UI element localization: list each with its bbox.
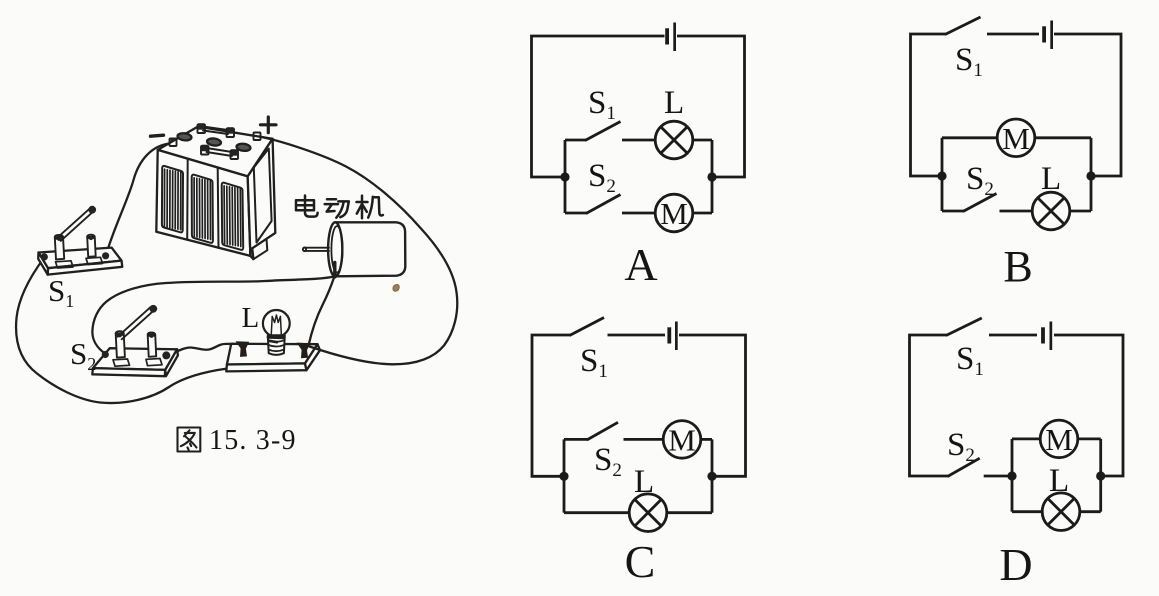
wire A left riser <box>564 140 567 213</box>
switch S1 base <box>38 248 122 275</box>
node right (circuit B) <box>1086 171 1095 180</box>
switch S1 binding post right <box>102 252 109 259</box>
svg-text:L: L <box>664 85 684 121</box>
svg-text:15. 3-9: 15. 3-9 <box>209 425 297 456</box>
svg-text:S1: S1 <box>580 343 608 382</box>
wire D left dropper <box>1011 476 1014 512</box>
wire A lamp to right riser <box>693 139 712 142</box>
svg-text:S2: S2 <box>594 442 622 481</box>
switch S2 (circuit C) <box>564 438 588 441</box>
lamp L (circuit D) <box>1042 493 1080 531</box>
wire B right dropper <box>1090 176 1093 211</box>
wire C top-left <box>532 335 571 476</box>
lamp base <box>226 344 320 372</box>
wire B branch M right <box>1035 136 1091 139</box>
switch S1 (circuit D) <box>946 318 982 336</box>
battery cell hatch panel 1 <box>162 166 183 232</box>
node right (circuit D) <box>1096 471 1105 480</box>
switch S2 binding post left <box>102 351 109 358</box>
wire battery-plus big right arc to lamp right clamp <box>259 137 457 365</box>
svg-text:B: B <box>1003 242 1032 291</box>
switch S2 (circuit A) <box>565 212 587 215</box>
motor M (circuit A) <box>655 194 693 232</box>
wire C branch M to motor <box>624 438 664 441</box>
svg-text:M: M <box>660 196 688 231</box>
svg-text:L: L <box>634 464 654 500</box>
lamp L (circuit A) <box>655 121 693 159</box>
wire A top-right <box>677 36 745 177</box>
lamp screw base <box>268 335 285 355</box>
wire B right riser <box>1090 138 1093 176</box>
svg-text:C: C <box>625 536 656 587</box>
lamp filament <box>271 315 281 334</box>
node left (circuit D) <box>1007 471 1016 480</box>
switch S1 (circuit B) <box>945 17 981 35</box>
motor body <box>328 222 405 278</box>
node left (circuit B) <box>937 171 946 180</box>
wire D branch M right <box>1078 437 1101 440</box>
wire C top-right <box>679 335 746 476</box>
svg-text:M: M <box>1045 422 1073 457</box>
svg-text:S1: S1 <box>588 85 616 124</box>
caption 图 15.3-9 <box>178 428 201 452</box>
battery B-D <box>1041 322 1052 351</box>
svg-text:L: L <box>1041 161 1061 197</box>
node left (circuit C) <box>559 472 568 481</box>
switch S1 binding post left <box>41 253 48 260</box>
svg-text:S1: S1 <box>48 273 74 311</box>
battery minus terminal post <box>170 138 177 146</box>
电 <box>305 196 318 217</box>
switch S1 foot marks <box>56 257 103 268</box>
lamp bulb globe <box>263 310 290 337</box>
svg-text:D: D <box>999 539 1032 590</box>
label 电动机 (motor) drawn strokes <box>296 196 383 219</box>
svg-text:L: L <box>242 302 260 334</box>
wire C right dropper <box>711 476 714 512</box>
lamp left clamp <box>236 341 250 357</box>
switch S2 foot marks <box>113 359 162 367</box>
wire A right riser <box>711 140 714 213</box>
label plus terminal <box>261 117 277 133</box>
switch S1 left post with hinge <box>55 235 64 260</box>
battery filler caps <box>177 132 251 151</box>
图 glyph <box>178 428 201 452</box>
wire D switch to left node <box>984 475 1012 478</box>
wire A motor to right riser <box>693 212 712 215</box>
wire D top-left <box>910 335 949 476</box>
label minus terminal <box>151 135 164 136</box>
battery cell hatch panel 2 <box>192 175 213 243</box>
battery cell hatch panel 3 <box>222 183 244 250</box>
svg-text:M: M <box>1002 121 1030 156</box>
svg-text:M: M <box>668 422 696 457</box>
lamp L (circuit C) <box>629 494 667 532</box>
switch S1 lever <box>57 206 97 241</box>
wire A branch1 to lamp <box>622 139 655 142</box>
wire B top-left <box>911 34 947 176</box>
battery pack <box>156 127 275 260</box>
battery B-C <box>667 322 677 351</box>
battery plus terminal post <box>254 133 261 141</box>
wire D left riser <box>1011 439 1014 476</box>
node left (circuit A) <box>560 172 569 181</box>
svg-text:S2: S2 <box>966 161 994 200</box>
svg-text:S2: S2 <box>947 427 975 466</box>
机 <box>357 196 368 219</box>
switch S2 (circuit B) <box>942 210 964 213</box>
wire B lamp right <box>1070 210 1091 213</box>
wire D right dropper <box>1099 476 1102 512</box>
battery strap front (cell2-cell3) <box>201 145 238 159</box>
wire S2 right post to lamp left clamp <box>167 344 239 356</box>
switch S1 (circuit C) <box>570 318 605 336</box>
wire D branch M left <box>1012 437 1040 440</box>
switch S2 (circuit D) <box>948 458 980 476</box>
svg-text:S2: S2 <box>588 158 616 197</box>
wire D top-right <box>1054 335 1123 476</box>
wire C left dropper <box>563 476 566 512</box>
battery strap back (cell1-cell2) <box>198 123 235 137</box>
wire B top-right <box>1054 34 1121 176</box>
wire A branch2 to motor <box>622 212 655 215</box>
wire C right riser <box>711 439 714 476</box>
wire D branch L left <box>1012 510 1042 513</box>
wire C lamp right <box>667 511 712 514</box>
switch S2 binding post right <box>162 351 170 359</box>
wire S1 left post bottom loop to lamp base <box>16 258 237 404</box>
wire motor bottom to lamp right clamp <box>309 278 335 346</box>
wire D right riser <box>1099 439 1102 476</box>
motor M (circuit C) <box>663 421 701 459</box>
wire C left riser <box>563 439 566 476</box>
wire B branch L to lamp <box>1000 210 1033 213</box>
svg-text:S1: S1 <box>956 341 984 380</box>
switch S2 base <box>92 348 178 376</box>
svg-text:S2: S2 <box>70 336 96 374</box>
lamp L (circuit B) <box>1032 192 1070 230</box>
switch S2 right post <box>148 332 157 356</box>
battery B-A <box>665 23 676 52</box>
switch S1 (circuit A) <box>565 139 586 142</box>
svg-text:A: A <box>624 239 657 290</box>
wire S2 left post to motor bottom <box>92 277 333 354</box>
switch S2 left post with hinge <box>116 331 125 357</box>
wire C motor right <box>701 438 712 441</box>
wire D lamp right <box>1080 510 1101 513</box>
wire B branch M left <box>942 136 997 139</box>
motor M (circuit B) <box>997 119 1035 157</box>
wire C branch L left <box>564 511 629 514</box>
switch S1 right post <box>87 235 96 257</box>
wire B left riser <box>941 138 944 176</box>
battery B-B <box>1042 21 1053 50</box>
wire battery-minus to S1 right post <box>106 144 171 256</box>
svg-text:S1: S1 <box>955 42 983 81</box>
node right (circuit A) <box>707 172 716 181</box>
svg-text:L: L <box>1049 463 1069 499</box>
small paper smudge <box>393 284 399 291</box>
motor shaft <box>303 247 329 251</box>
wire A top-left loop <box>532 36 665 177</box>
node right (circuit C) <box>707 472 716 481</box>
动 <box>325 199 338 211</box>
switch S2 lever <box>118 305 158 339</box>
lamp right clamp <box>297 343 311 359</box>
motor M (circuit D) <box>1040 420 1078 458</box>
wire B left dropper <box>941 176 944 211</box>
